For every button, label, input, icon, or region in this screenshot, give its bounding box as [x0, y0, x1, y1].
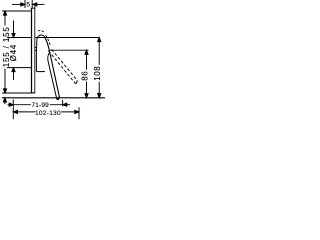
plate left edge — [31, 8, 33, 93]
plate right edge — [34, 8, 36, 93]
plate top cap — [31, 7, 35, 9]
svg-text:71-99: 71-99 — [31, 102, 49, 109]
top dim arrow left — [12, 3, 25, 6]
lever hub right leg + blade right edge — [45, 38, 59, 96]
108 dim line — [98, 38, 100, 98]
155 dim top extension line — [2, 10, 31, 12]
svg-text:108: 108 — [93, 66, 102, 81]
wall line up arrow — [3, 98, 6, 104]
108 label — [93, 65, 102, 82]
O44 top extension line (left segment) — [7, 37, 31, 39]
86 dim line — [86, 50, 88, 98]
bottom middle extension line — [62, 100, 64, 106]
108 top arrow — [98, 38, 101, 42]
71-99 dim line — [13, 104, 62, 106]
dashed blade edge B — [52, 49, 78, 80]
plate sleeve tick lower — [35, 49, 37, 51]
102-130 label — [35, 109, 61, 117]
dashed blade tip — [75, 80, 78, 83]
plate sleeve tick upper — [35, 47, 37, 49]
svg-text:102-130: 102-130 — [35, 110, 61, 117]
top dim extension line A — [24, 0, 26, 8]
86 bottom arrow — [85, 94, 88, 98]
86 top arrow — [85, 50, 88, 54]
71-99 label — [31, 101, 50, 109]
top dim extension line B — [31, 0, 33, 8]
155 dim line — [4, 11, 6, 93]
lever inner vertical line — [35, 53, 37, 72]
plate right edge top stub — [34, 6, 36, 8]
bottom right extension line — [78, 107, 80, 119]
dashed hub arc (raised position) — [38, 30, 44, 32]
102-130 dim line — [13, 111, 79, 113]
plate (escutcheon side view) — [31, 8, 35, 93]
O44 bottom arrow with stem — [12, 68, 15, 80]
71-99 dim left outside arrow — [8, 103, 14, 106]
O44 top arrow with stem — [12, 21, 15, 38]
svg-text:86: 86 — [80, 71, 89, 81]
top dim arrow right — [33, 3, 45, 6]
lever inner bottom line — [36, 71, 45, 73]
102-130 dim left arrow — [13, 110, 17, 113]
lever hub left leg — [35, 39, 38, 52]
86 dim extension line — [49, 49, 89, 51]
dashed blade edge A — [49, 51, 75, 83]
71-99 dim right outside arrow — [63, 103, 70, 106]
dashed hub right leg (raised position) — [46, 35, 51, 46]
bottom left extension line — [12, 100, 14, 120]
lever blade left edge — [48, 52, 57, 97]
86 label — [80, 70, 89, 82]
lever blade tip — [56, 97, 59, 100]
lever hub dome — [37, 35, 45, 39]
155 dim top arrow — [3, 11, 6, 15]
155 dim bottom arrow — [3, 89, 6, 93]
102-130 dim right arrow — [75, 110, 79, 113]
155 dim bottom extension line — [2, 92, 31, 94]
wall line — [2, 97, 105, 99]
O44 bottom extension line — [7, 67, 31, 69]
108 top extension line (right segment) — [35, 37, 99, 39]
svg-text:5: 5 — [26, 2, 30, 9]
155/155 label — [2, 26, 11, 69]
svg-text:Ø44: Ø44 — [9, 44, 18, 62]
plate bottom cap — [31, 92, 35, 94]
108 bottom arrow — [98, 94, 101, 98]
